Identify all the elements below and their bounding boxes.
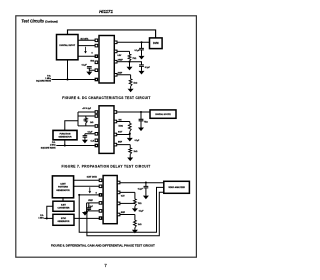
capacitor C7 0.1uF bbox=[144, 186, 149, 188]
wire: VRT to R6 bbox=[120, 192, 135, 199]
wire: IREF to R7 bbox=[120, 215, 135, 221]
svg-text:GENERATOR: GENERATOR bbox=[56, 189, 70, 192]
resistor R3 bbox=[84, 118, 87, 123]
wire: IOUT pin to node bbox=[117, 131, 130, 138]
wire: data bus bit 2 to DUT (fig8) bbox=[74, 185, 100, 187]
junction at VOUT bbox=[140, 41, 142, 43]
pin VOUT (fig7 right 1) bbox=[114, 111, 117, 114]
svg-text:0.1µF: 0.1µF bbox=[138, 188, 144, 190]
svg-text:1 MHz: 1 MHz bbox=[50, 144, 56, 146]
wire: clock line to CLK pin bbox=[78, 55, 95, 57]
junction sync line bbox=[86, 210, 88, 212]
ground at R1 bbox=[127, 67, 133, 71]
wire: sync gen output to DUT bbox=[74, 217, 99, 219]
svg-text:VIDEO ANALYZER: VIDEO ANALYZER bbox=[168, 186, 185, 189]
wire: C3 to ground bbox=[141, 66, 143, 71]
pin D7 (fig8 left 1) bbox=[99, 179, 102, 182]
capacitor C4 0.1uF bbox=[83, 136, 88, 138]
wire: VDD decoupling stub bbox=[89, 68, 95, 70]
wire: VOUT to video analyzer bbox=[120, 182, 164, 184]
resistor R4 bbox=[128, 123, 131, 131]
svg-text:0.1µF: 0.1µF bbox=[82, 64, 88, 66]
wire: C7 to ground bbox=[145, 188, 147, 196]
wire: VRT to R4 bbox=[117, 122, 130, 124]
svg-text:CONVERTER: CONVERTER bbox=[58, 207, 71, 209]
wire: stub to C7 bbox=[145, 183, 147, 187]
wire: R2 to ground bbox=[130, 86, 132, 88]
wire: VOUT to DVM bbox=[117, 41, 150, 43]
junction: generator output bbox=[64, 144, 66, 146]
junction VREF node bbox=[128, 61, 130, 63]
ground at R4 bbox=[127, 138, 133, 142]
oscilloscope box bbox=[150, 110, 176, 118]
resistor R6 75 ohm bbox=[134, 199, 137, 206]
svg-text:75Ω: 75Ω bbox=[144, 122, 148, 124]
wire: rail to pin 3 bbox=[78, 125, 95, 127]
wire: C4 to ground bbox=[84, 137, 86, 140]
junction at VOUT (fig7) bbox=[140, 111, 142, 113]
wire: R3 lower stub bbox=[85, 123, 87, 126]
pin D7 (left 1) bbox=[95, 39, 98, 42]
svg-text:7: 7 bbox=[104, 263, 107, 268]
ground at C1 bbox=[86, 70, 92, 75]
svg-text:0.1µF: 0.1µF bbox=[134, 50, 140, 52]
pin VREF+ (fig8 left 4) bbox=[99, 202, 102, 205]
resistor R1 75 ohm bbox=[128, 54, 131, 61]
svg-text:1kΩ: 1kΩ bbox=[134, 151, 138, 153]
svg-text:0.1µF: 0.1µF bbox=[88, 131, 94, 133]
svg-text:SQUARE WAVE: SQUARE WAVE bbox=[36, 80, 52, 83]
pin VOUT (fig8 right 1) bbox=[117, 181, 120, 184]
svg-text:1kΩ: 1kΩ bbox=[90, 122, 94, 124]
wire: generator sync up to +5V rail bbox=[65, 121, 78, 131]
junction at VOUT (fig8) bbox=[145, 181, 147, 183]
pin VDD (fig7 left 1) bbox=[95, 111, 98, 114]
wire: IREF to R5 bbox=[117, 145, 131, 148]
pin IREF (right 4) bbox=[114, 74, 117, 77]
svg-text:1kΩ: 1kΩ bbox=[138, 224, 142, 226]
svg-text:1kΩ: 1kΩ bbox=[133, 83, 137, 85]
wire: VREF node to C3 bbox=[130, 62, 142, 65]
pin VREF (right 3) bbox=[114, 60, 117, 63]
wire: 1MHz clock line to CLK input bbox=[52, 79, 96, 81]
capacitor C6 0.1uF bbox=[87, 208, 92, 210]
capacitor C2 0.1uF bbox=[139, 48, 144, 50]
svg-text:510Ω: 510Ω bbox=[119, 125, 124, 127]
ground at R2 bbox=[128, 89, 134, 93]
ground at R5 bbox=[127, 158, 133, 162]
ground at R7 bbox=[132, 230, 138, 234]
wire: C5 to ground bbox=[140, 121, 142, 128]
pin CLK (fig8 left 3, bubble) bbox=[99, 194, 102, 197]
pin IREF (fig7 right 4) bbox=[114, 143, 117, 146]
pin VREF- (fig8 left 5) bbox=[99, 210, 102, 213]
sync generator box bbox=[53, 214, 74, 225]
svg-text:GENERATOR: GENERATOR bbox=[57, 220, 70, 223]
wire: data bus bit to DUT (fig8) bbox=[74, 179, 100, 181]
svg-text:SYNC: SYNC bbox=[61, 218, 67, 220]
counter box (fig 8) bbox=[53, 201, 74, 211]
pin VOUT (right 1) bbox=[114, 41, 117, 44]
pin D7 (fig7 left 2) bbox=[95, 115, 98, 118]
svg-text:PATTERN: PATTERN bbox=[58, 186, 68, 189]
bus arrow (8 lines) bbox=[84, 47, 87, 54]
wire: +5V rail vertical bbox=[77, 112, 79, 126]
resistor R7 1k bbox=[134, 220, 137, 228]
pin D0 (fig8 left 2) bbox=[99, 185, 102, 188]
svg-text:P.G.: P.G. bbox=[40, 215, 44, 217]
pin D4 (fig7 left 3) bbox=[95, 125, 98, 128]
DUT IC U3 HI1171 (fig 8) bbox=[103, 176, 117, 224]
wire: P.G. input to sync gen bbox=[44, 217, 53, 219]
wire: feedback loop A from video analyzer bbox=[79, 187, 164, 232]
svg-text:DIGITAL SCOPE: DIGITAL SCOPE bbox=[155, 113, 171, 116]
svg-text:8-BIT: 8-BIT bbox=[61, 204, 67, 206]
pin D0 (left 2) bbox=[95, 44, 98, 47]
svg-text:75Ω: 75Ω bbox=[132, 58, 136, 60]
bus arrow (fig8) bbox=[88, 187, 91, 193]
wire: node to ground bbox=[129, 62, 131, 67]
DUT IC U1 HI1171 bbox=[99, 36, 114, 84]
svg-text:8-BIT: 8-BIT bbox=[60, 183, 66, 185]
wire: data bit to DUT pin D0 bbox=[78, 45, 95, 47]
video analyzer box bbox=[164, 181, 190, 193]
wire: generator output down bbox=[67, 60, 69, 80]
ground at C7 bbox=[143, 196, 149, 200]
wire: pattern gen to counter bbox=[62, 198, 64, 201]
pin D1 (fig7 left 5) bbox=[95, 139, 98, 142]
pin CLK2 (left 6, bubble) bbox=[95, 78, 98, 81]
svg-text:75Ω: 75Ω bbox=[138, 203, 142, 205]
junction IOUT node bbox=[129, 133, 131, 135]
ground at C3 bbox=[139, 71, 145, 75]
wire: clock line to CLK pin (fig8) bbox=[79, 194, 99, 196]
pattern generator box (fig 8) bbox=[52, 176, 73, 198]
svg-text:FIGURE 6. DC CHARACTERISTICS T: FIGURE 6. DC CHARACTERISTICS TEST CIRCUI… bbox=[62, 96, 150, 100]
ground at C4 bbox=[82, 140, 88, 144]
svg-text:1 MHz: 1 MHz bbox=[38, 218, 44, 220]
wire: VREF- stub bbox=[87, 210, 100, 212]
pin IOUT (fig7 right 3) bbox=[114, 133, 117, 136]
wire: stub to C5 bbox=[140, 112, 142, 119]
digital input pattern generator box bbox=[57, 35, 79, 60]
svg-text:+5V 0.1µF: +5V 0.1µF bbox=[82, 108, 92, 110]
wire: stub to C2 bbox=[141, 42, 143, 48]
wire: VREF pin to node bbox=[117, 61, 130, 63]
wire: P.G. input to counter bbox=[47, 206, 53, 218]
wire: IREF pin to R2 bbox=[117, 75, 131, 79]
svg-text:FIGURE 8. DIFFERENTIAL GAIN AN: FIGURE 8. DIFFERENTIAL GAIN AND DIFFEREN… bbox=[51, 243, 155, 247]
svg-text:8-BIT DATA: 8-BIT DATA bbox=[87, 175, 98, 178]
ground at C6 bbox=[82, 211, 88, 216]
wire: stub to R3 bbox=[85, 116, 87, 118]
wire: data bit to DUT pin D7 bbox=[78, 39, 95, 41]
wire: R7 to ground bbox=[134, 228, 136, 230]
ground at R6 bbox=[132, 208, 138, 212]
wire: generator top rail to DVM bbox=[68, 30, 156, 38]
wire: VREF+ stub bbox=[87, 202, 100, 204]
pin IREF (fig8 right 4) bbox=[117, 213, 120, 216]
svg-text:VREF: VREF bbox=[118, 60, 124, 62]
resistor R5 1k bbox=[129, 148, 132, 154]
capacitor C5 bbox=[139, 119, 144, 121]
pin IOUT (fig8 right 3) bbox=[117, 202, 120, 205]
pin VRT (fig7 right 2) bbox=[114, 120, 117, 123]
wire: decoupling stub to C4 bbox=[85, 134, 95, 136]
junction at P.G. input bbox=[46, 217, 48, 219]
wire: VRT to R1 bbox=[117, 51, 130, 54]
ground at C5 bbox=[138, 128, 144, 132]
svg-text:FUNCTION: FUNCTION bbox=[60, 133, 71, 135]
DUT IC U2 HI1171 (fig 7) bbox=[99, 106, 114, 154]
junction: clock node bbox=[66, 78, 68, 80]
wire: cluster left rail bbox=[86, 203, 88, 211]
pin VRT (right 2) bbox=[114, 50, 117, 53]
svg-text:DVM: DVM bbox=[153, 42, 158, 45]
pin AVDD (left 5) bbox=[95, 69, 98, 72]
capacitor C3 0.1uF bbox=[139, 65, 144, 67]
junction clock riser bbox=[78, 194, 80, 196]
pin VDD (left 4) bbox=[95, 61, 98, 64]
pin SYNC (fig8 left 6, bubble) bbox=[99, 217, 102, 220]
resistor R2 1k bbox=[129, 79, 132, 87]
wire: IOUT pin to node (fig8) bbox=[120, 202, 135, 204]
wire: R5 to ground bbox=[129, 154, 131, 157]
function generator box bbox=[53, 130, 77, 139]
svg-text:HI1171: HI1171 bbox=[99, 9, 113, 14]
wire: rail to pin 2 bbox=[78, 115, 95, 117]
pin CLK (left 3, bubble) bbox=[95, 55, 98, 58]
wire: rail to pin 1 bbox=[78, 111, 95, 113]
wire: VOUT to oscilloscope bbox=[117, 111, 150, 113]
svg-text:FIGURE 7. PROPAGATION DELAY TE: FIGURE 7. PROPAGATION DELAY TEST CIRCUIT bbox=[61, 164, 150, 168]
wire: R6 to ground bbox=[134, 206, 136, 208]
pin VRT (fig8 right 2) bbox=[117, 191, 120, 194]
pin CLK (fig7 left 6, bubble) bbox=[95, 144, 98, 147]
wire: feedback loop B from video analyzer bbox=[87, 192, 164, 235]
svg-text:SQUARE WAVE: SQUARE WAVE bbox=[41, 146, 57, 149]
pin AVDD (fig7 left 4) bbox=[95, 133, 98, 136]
wire: C6 to VREF- wire bbox=[88, 209, 90, 211]
DVM meter box bbox=[150, 38, 163, 49]
wire: generator output down bbox=[64, 140, 66, 146]
capacitor C1 0.1uF bbox=[87, 67, 92, 69]
ground at C2 bbox=[139, 56, 145, 60]
svg-text:DIGITAL INPUT: DIGITAL INPUT bbox=[59, 44, 75, 47]
wire: 1MHz line to DUT bbox=[56, 145, 95, 147]
svg-text:0.1µF: 0.1µF bbox=[145, 67, 151, 69]
wire: C2 to ground bbox=[141, 50, 143, 56]
wire: stub to C6 top bbox=[88, 203, 90, 208]
svg-text:GENERATOR: GENERATOR bbox=[58, 135, 72, 138]
